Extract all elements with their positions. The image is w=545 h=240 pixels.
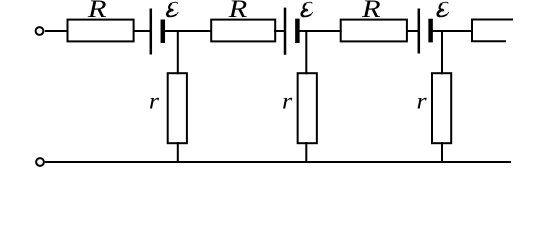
svg-text:R: R	[228, 0, 248, 23]
svg-text:r: r	[282, 89, 293, 114]
svg-text:R: R	[361, 0, 381, 23]
svg-text:r: r	[417, 89, 428, 114]
svg-text:r: r	[149, 89, 160, 114]
svg-text:R: R	[87, 0, 107, 23]
